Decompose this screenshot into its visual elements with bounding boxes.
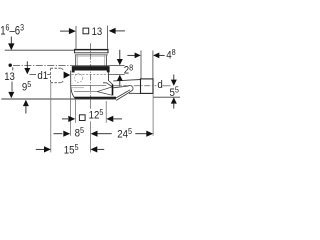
dimension sq13 extension lines: [75, 26, 77, 49]
dimension sq13 arrows: [60, 28, 125, 34]
grate (top frame): [74, 49, 108, 55]
collar top plane line to right (2^8 ref): [110, 64, 125, 66]
d1 dashed stub: [51, 68, 65, 83]
outlet pipe bottom edge: [129, 92, 141, 94]
outlet flange dark bar: [112, 85, 114, 96]
centerline extension down to dim rows: [89, 99, 91, 109]
dimension sq13 text: [83, 28, 89, 34]
outlet pipe top edge: [113, 80, 140, 81]
label 1^6-6^3 (adjustable height): [0, 23, 24, 38]
socket (pipe end): [141, 79, 154, 94]
hidden (dashed) inlet line inside body: [72, 73, 109, 75]
row1: sq 12^5 dimension: [62, 116, 122, 122]
drain vertical centerline: [89, 43, 91, 99]
row2: 8^5 and 24^5 dimensions: [54, 131, 154, 137]
top reference line (grate level): [5, 49, 75, 51]
base reference line: [1, 98, 116, 100]
dimension 4^8 extension lines: [140, 51, 142, 80]
floor level dash-dot line with dot marker: [9, 63, 72, 66]
dimension 4^8 arrows: [127, 53, 164, 59]
d1 label and leader: [30, 73, 37, 75]
pipe centerline dash-dot: [113, 85, 156, 87]
svg-text:d1: d1: [37, 69, 48, 82]
body bottom thick bar: [75, 97, 116, 99]
row3: 15^5 dimension: [36, 146, 104, 152]
body below collar: [71, 71, 109, 99]
internal water lines: [71, 85, 106, 87]
arrow down to top reference line: [8, 37, 14, 51]
2^8 dimension: [117, 50, 123, 87]
svg-text:d: d: [157, 79, 162, 92]
outlet funnel (wedge) inside body: [97, 87, 112, 95]
outlet shoulder diagonals: [103, 81, 113, 87]
riser box: [76, 55, 107, 66]
trap outlet cone (nib shape): [113, 86, 133, 101]
d1 inlet: down arrow: [24, 61, 30, 74]
svg-text:13: 13: [4, 70, 15, 83]
bottom dim extension lines: [50, 83, 52, 152]
svg-text:13: 13: [92, 25, 103, 38]
hidden inlet circle (dashed arc): [74, 74, 83, 83]
d1 filled arrowhead into body: [64, 72, 71, 79]
clamping collar (dark bar): [72, 65, 110, 72]
